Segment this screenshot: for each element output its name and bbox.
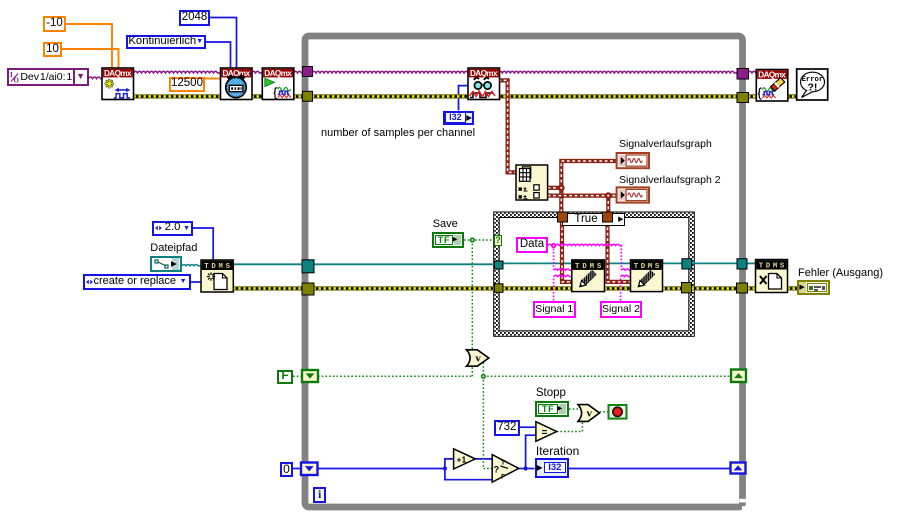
svg-text:=: = <box>542 428 548 439</box>
svg-text:DAQmx: DAQmx <box>470 69 498 78</box>
svg-text:F: F <box>501 474 505 481</box>
svg-text:+1: +1 <box>457 455 467 465</box>
svg-text:?!: ?! <box>807 82 817 94</box>
svg-text:DAQmx: DAQmx <box>264 69 292 78</box>
svg-text:DAQmx: DAQmx <box>104 69 132 78</box>
svg-text:v: v <box>587 408 593 420</box>
svg-text:DAQmx: DAQmx <box>758 71 786 80</box>
svg-text:T: T <box>501 460 505 467</box>
svg-text:v: v <box>475 353 481 365</box>
svg-text:?: ? <box>494 464 500 474</box>
